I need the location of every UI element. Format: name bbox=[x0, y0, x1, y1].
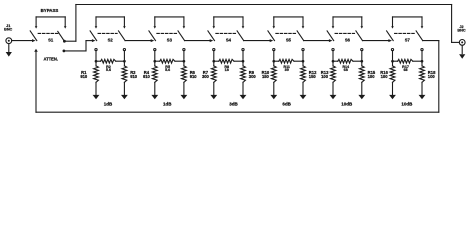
svg-text:300: 300 bbox=[249, 74, 257, 79]
svg-text:10dB: 10dB bbox=[341, 102, 353, 107]
svg-text:S7: S7 bbox=[405, 38, 411, 43]
svg-text:100: 100 bbox=[368, 74, 376, 79]
svg-text:S2: S2 bbox=[108, 38, 114, 43]
svg-text:S6: S6 bbox=[345, 38, 351, 43]
svg-text:100: 100 bbox=[321, 74, 329, 79]
svg-text:100: 100 bbox=[381, 74, 389, 79]
svg-text:S1: S1 bbox=[48, 38, 54, 43]
svg-text:BNC: BNC bbox=[4, 28, 12, 32]
svg-text:3dB: 3dB bbox=[229, 102, 238, 107]
svg-text:S3: S3 bbox=[167, 38, 173, 43]
svg-text:S5: S5 bbox=[286, 38, 292, 43]
svg-text:910: 910 bbox=[190, 74, 198, 79]
svg-text:BYPASS: BYPASS bbox=[41, 8, 59, 13]
svg-text:68: 68 bbox=[344, 68, 348, 72]
svg-text:5.6: 5.6 bbox=[165, 68, 170, 72]
svg-text:5.6: 5.6 bbox=[106, 68, 111, 72]
svg-text:68: 68 bbox=[403, 68, 407, 72]
svg-text:S4: S4 bbox=[226, 38, 232, 43]
svg-text:300: 300 bbox=[202, 74, 210, 79]
svg-text:910: 910 bbox=[130, 74, 138, 79]
svg-text:18: 18 bbox=[225, 68, 229, 72]
svg-text:910: 910 bbox=[143, 74, 151, 79]
svg-text:BNC: BNC bbox=[457, 29, 465, 33]
svg-text:100: 100 bbox=[428, 74, 436, 79]
svg-text:910: 910 bbox=[80, 74, 88, 79]
svg-text:150: 150 bbox=[262, 74, 270, 79]
svg-text:6dB: 6dB bbox=[282, 102, 291, 107]
svg-text:1dB: 1dB bbox=[104, 102, 113, 107]
svg-text:150: 150 bbox=[309, 74, 317, 79]
svg-text:1dB: 1dB bbox=[163, 102, 172, 107]
svg-text:10dB: 10dB bbox=[401, 102, 413, 107]
svg-text:39: 39 bbox=[285, 68, 289, 72]
svg-text:ATTEN.: ATTEN. bbox=[44, 57, 58, 62]
